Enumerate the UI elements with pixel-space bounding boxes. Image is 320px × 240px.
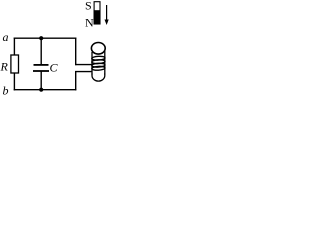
arrow of falling magnet: head <box>105 20 109 26</box>
resistor R <box>11 55 19 73</box>
wire capacitor branch bottom lead <box>40 72 42 90</box>
coil L: winding turn 1 <box>92 56 105 60</box>
wire bottom horizontal b to right corner <box>14 89 77 91</box>
wire stub to coil bottom <box>75 71 92 73</box>
coil L: top opening circle <box>91 43 105 55</box>
magnet N pole (black) <box>94 10 101 24</box>
coil L: winding turn 2 <box>92 59 105 63</box>
wire top horizontal a to right corner <box>14 37 77 39</box>
coil L: rounded bottom <box>92 74 105 82</box>
wire right vertical lower segment <box>75 71 77 90</box>
junction dot bottom <box>39 88 43 92</box>
svg-text:C: C <box>50 60 59 74</box>
wire left vertical top lead from a to resistor <box>13 38 15 56</box>
coil L: cylinder left side <box>91 52 93 75</box>
wire stub to coil top <box>75 64 92 66</box>
magnet outline (S pole white) <box>94 2 100 24</box>
wire right vertical upper segment <box>75 38 77 66</box>
svg-text:S: S <box>85 0 92 12</box>
svg-text:b: b <box>3 84 9 98</box>
coil L: winding turn 3 <box>92 63 105 67</box>
coil L: cylinder right side <box>104 51 106 75</box>
capacitor C bottom plate <box>33 70 49 72</box>
junction dot top <box>39 36 43 40</box>
svg-text:a: a <box>3 30 9 44</box>
svg-text:R: R <box>0 60 9 74</box>
arrow of falling magnet: shaft <box>106 5 108 22</box>
coil L: winding turn 4 <box>92 66 105 70</box>
capacitor C top plate <box>34 64 49 66</box>
wire capacitor branch top lead <box>40 38 42 65</box>
svg-text:N: N <box>85 16 94 30</box>
wire left vertical bottom lead from resistor to b <box>13 73 15 90</box>
